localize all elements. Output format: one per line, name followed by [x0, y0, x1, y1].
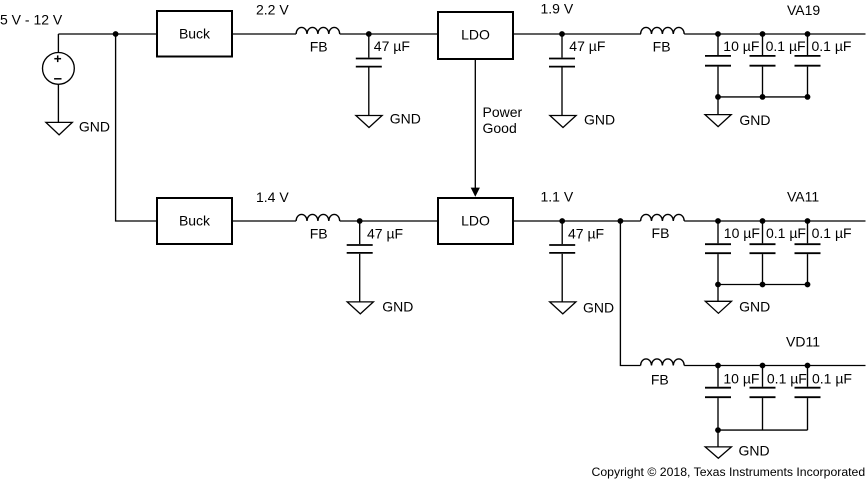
capacitor C4 47 uF [549, 221, 604, 302]
svg-text:0.1 µF: 0.1 µF [812, 225, 852, 241]
svg-text:47 µF: 47 µF [568, 225, 604, 241]
ferrite bead FB2 [641, 27, 685, 54]
svg-text:0.1 µF: 0.1 µF [766, 225, 806, 241]
junction VD11 g1 [715, 427, 721, 433]
junction input node [113, 31, 119, 37]
ground VA11 [705, 301, 731, 313]
svg-text:47 µF: 47 µF [367, 226, 403, 242]
junction VD11 branch [618, 218, 624, 224]
junction VA11 c2 [760, 218, 766, 224]
wire U1 output [233, 33, 296, 35]
wire FB3 to LDO U4 [340, 220, 438, 222]
wire VA11 ground rail [718, 284, 808, 286]
svg-text:0.1 µF: 0.1 µF [812, 370, 852, 386]
capacitor C5 10 uF [705, 34, 759, 97]
wire power good [474, 60, 476, 188]
svg-text:GND: GND [390, 111, 421, 127]
ground C3 [347, 302, 373, 314]
ground C2 [550, 116, 576, 128]
junction VA11 c3 [805, 218, 811, 224]
svg-text:VA11: VA11 [787, 189, 819, 205]
wire VA11 rail [684, 220, 865, 222]
wire VD11 rail [684, 365, 865, 367]
junction C2 node [559, 31, 565, 37]
buck converter U1 [157, 11, 232, 57]
wire VD11 ground rail [718, 429, 808, 431]
wire FB1 to LDO U3 [340, 33, 438, 35]
svg-text:47 µF: 47 µF [569, 38, 605, 54]
svg-text:FB: FB [310, 39, 328, 55]
svg-text:2.2 V: 2.2 V [256, 2, 289, 18]
svg-text:Power: Power [483, 104, 523, 120]
capacitor C9 0.1 uF [750, 221, 806, 285]
svg-text:GND: GND [739, 112, 770, 128]
wire VD11 branch [620, 221, 640, 366]
svg-text:0.1 µF: 0.1 µF [767, 370, 807, 386]
buck converter U2 [157, 198, 232, 244]
wire VA19 gnd stub [717, 97, 719, 115]
svg-text:GND: GND [584, 112, 615, 128]
svg-text:47 µF: 47 µF [374, 38, 410, 54]
junction VA11 c1 [715, 218, 721, 224]
svg-text:1.9 V: 1.9 V [541, 1, 574, 17]
svg-text:FB: FB [653, 38, 671, 54]
svg-text:LDO: LDO [461, 27, 490, 43]
wire VA19 ground rail [718, 96, 808, 98]
ferrite bead FB4 [641, 214, 685, 241]
ground C4 [550, 302, 576, 314]
wire U2 output [233, 220, 296, 222]
junction C1 node [366, 31, 372, 37]
wire VD11 gnd stub [717, 430, 719, 447]
svg-text:0.1 µF: 0.1 µF [766, 38, 806, 54]
capacitor C3 47 uF [347, 221, 403, 302]
junction VD11 c3 [805, 363, 811, 369]
svg-text:Good: Good [483, 120, 517, 136]
junction VA19 c3 [805, 31, 811, 37]
capacitor C2 47 uF [549, 34, 605, 116]
wire VA19 rail [684, 33, 865, 35]
capacitor C10 0.1 uF [795, 221, 852, 285]
svg-text:LDO: LDO [461, 212, 490, 228]
svg-text:10 µF: 10 µF [723, 38, 759, 54]
junction VA19 g3 [805, 94, 811, 100]
svg-text:GND: GND [382, 299, 413, 315]
wire U4 output [514, 220, 641, 222]
svg-text:10 µF: 10 µF [723, 370, 759, 386]
junction VD11 c2 [760, 363, 766, 369]
capacitor C11 10 uF [705, 366, 759, 431]
junction VD11 c1 [715, 363, 721, 369]
svg-text:FB: FB [651, 372, 669, 388]
junction VA11 g3 [805, 282, 811, 288]
svg-text:GND: GND [583, 300, 614, 316]
capacitor C12 0.1 uF [750, 366, 807, 431]
svg-text:FB: FB [310, 226, 328, 242]
svg-text:Buck: Buck [179, 25, 211, 41]
capacitor C13 0.1 uF [795, 366, 852, 431]
ferrite bead FB1 [296, 27, 340, 54]
svg-text:0.1 µF: 0.1 µF [812, 38, 852, 54]
junction VA19 g1 [715, 94, 721, 100]
arrow power good [471, 188, 480, 197]
wire VA11 gnd stub [717, 285, 719, 302]
ground VD11 [705, 447, 731, 458]
junction VA11 g2 [760, 282, 766, 288]
junction C3 node [357, 218, 363, 224]
LDO U3 [438, 12, 513, 59]
svg-text:GND: GND [79, 119, 110, 135]
capacitor C8 10 uF [705, 221, 760, 285]
svg-text:1.1 V: 1.1 V [541, 188, 574, 204]
svg-text:Buck: Buck [179, 212, 211, 228]
wire trunk down [116, 34, 157, 221]
svg-text:GND: GND [739, 442, 770, 458]
junction VA19 g2 [760, 94, 766, 100]
svg-text:VD11: VD11 [786, 334, 820, 350]
ferrite bead FB3 [296, 214, 340, 241]
ferrite bead FB5 [641, 359, 685, 388]
voltage source V1 [43, 53, 75, 85]
wire source bottom [57, 84, 59, 122]
svg-text:GND: GND [739, 299, 770, 315]
svg-text:1.4 V: 1.4 V [256, 189, 289, 205]
svg-text:10 µF: 10 µF [724, 225, 760, 241]
junction VA19 c1 [715, 31, 721, 37]
capacitor C7 0.1 uF [795, 34, 852, 97]
junction VA11 g1 [715, 282, 721, 288]
svg-text:FB: FB [652, 225, 670, 241]
ground source [46, 122, 72, 134]
svg-text:VA19: VA19 [787, 2, 820, 18]
svg-text:Copyright © 2018, Texas Instru: Copyright © 2018, Texas Instruments Inco… [592, 465, 866, 479]
junction VA19 c2 [760, 31, 766, 37]
wire U3 output [514, 33, 641, 35]
wire input to Buck U1 [58, 33, 157, 35]
capacitor C6 0.1 uF [750, 34, 806, 97]
capacitor C1 47 uF [356, 34, 410, 116]
junction C4 node [559, 218, 565, 224]
svg-text:5 V - 12 V: 5 V - 12 V [0, 12, 63, 28]
LDO U4 [438, 198, 513, 244]
wire source top [57, 34, 59, 53]
ground VA19 [705, 115, 731, 127]
ground C1 [356, 116, 382, 128]
